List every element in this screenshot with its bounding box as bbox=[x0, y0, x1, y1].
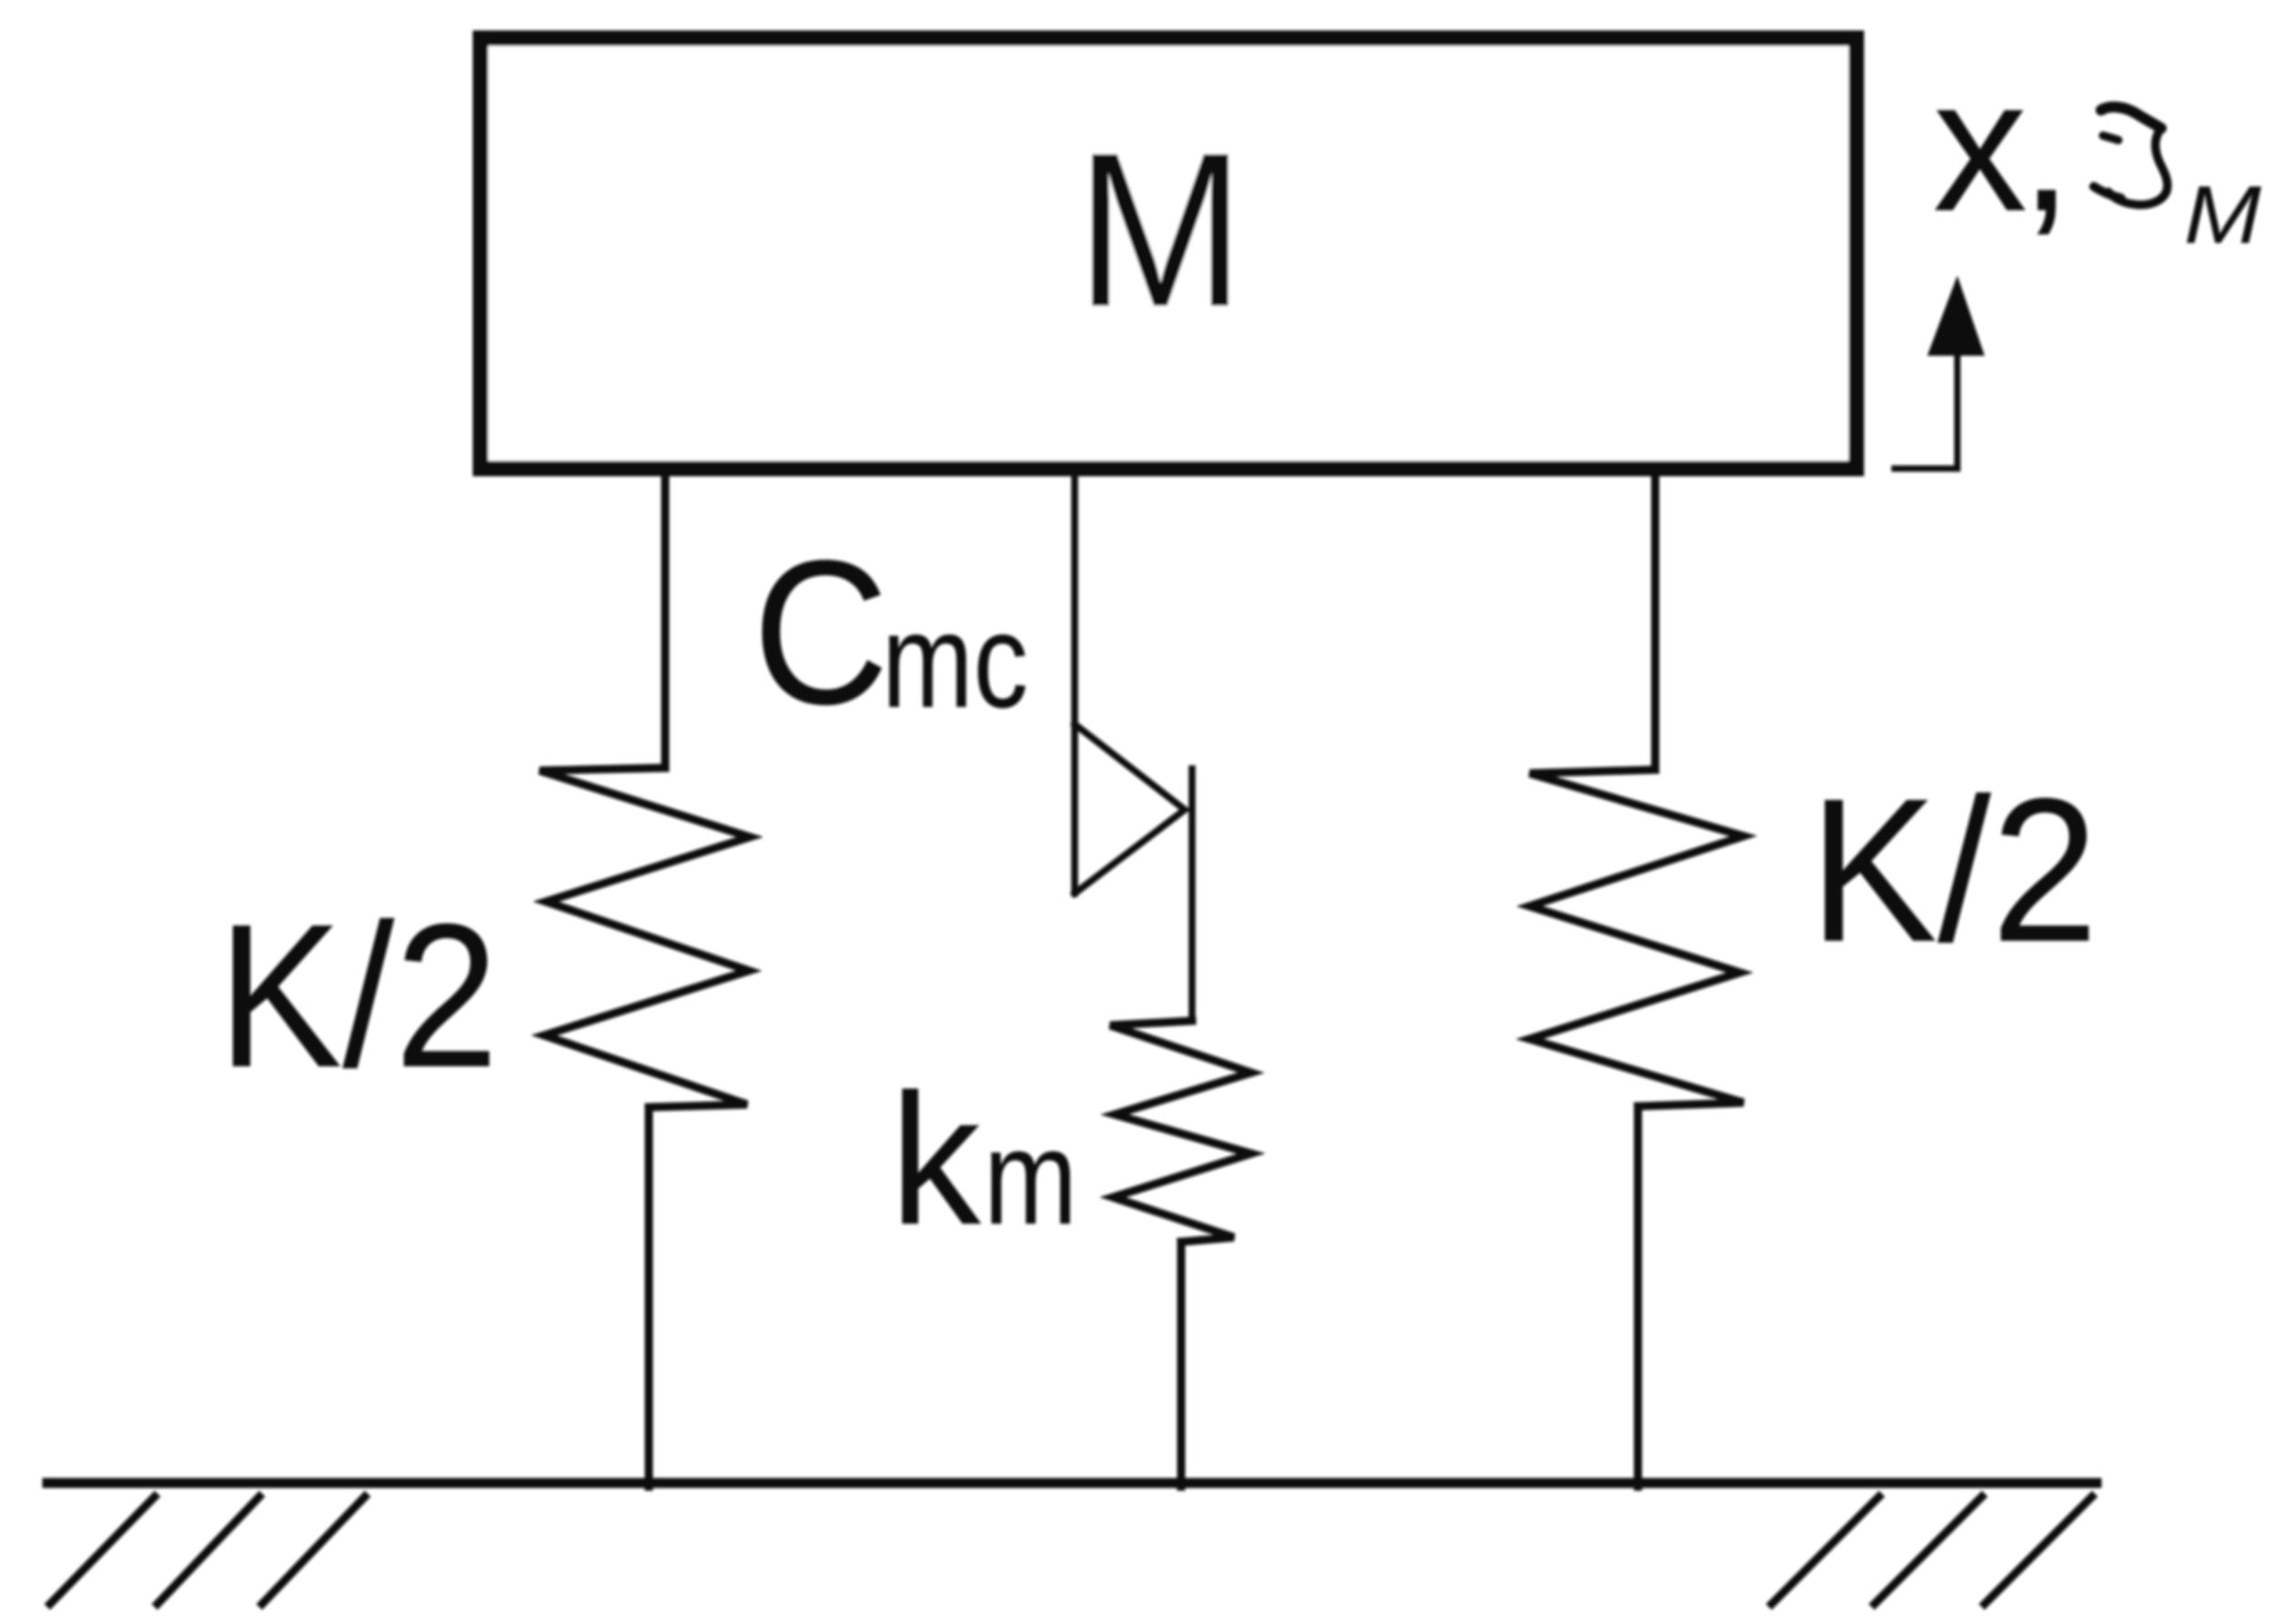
spring K/2 right bbox=[1530, 770, 1743, 1106]
svg-text:m: m bbox=[984, 1103, 1077, 1253]
svg-text:M: M bbox=[2184, 170, 2261, 261]
spring km bbox=[1110, 1021, 1251, 1242]
wire: damper output rod bbox=[1188, 769, 1196, 1021]
arrow shaft bbox=[1955, 356, 1961, 469]
ground hatch right 2 bbox=[1875, 1497, 1982, 1604]
svg-text:mc: mc bbox=[882, 586, 1028, 736]
ground hatch left 3 bbox=[262, 1497, 365, 1604]
wire: km spring bottom leg bbox=[1177, 1242, 1186, 1487]
mass M rectangle bbox=[480, 38, 1856, 469]
ground hatch right 1 bbox=[1772, 1497, 1879, 1604]
svg-text:k: k bbox=[890, 1055, 981, 1264]
ground hatch right 3 bbox=[1985, 1497, 2092, 1604]
wire: left spring top leg bbox=[662, 469, 670, 768]
svg-text:x: x bbox=[1933, 40, 2027, 251]
ground hatch left 2 bbox=[157, 1497, 259, 1604]
svg-text:C: C bbox=[753, 517, 889, 747]
svg-text:K/2: K/2 bbox=[1809, 755, 2098, 984]
svg-text:,: , bbox=[2020, 40, 2073, 251]
wire: right spring top leg bbox=[1652, 469, 1660, 770]
ground hatch left 1 bbox=[50, 1497, 155, 1604]
damper Cmc triangle bbox=[1075, 724, 1185, 893]
arrow foot wire bbox=[1895, 466, 1957, 472]
wire: damper top leg bbox=[1071, 469, 1078, 893]
symbol Im (fraktur I) bbox=[2094, 107, 2168, 206]
label km bbox=[890, 1055, 1077, 1264]
ground line bbox=[47, 1478, 2097, 1488]
spring K/2 left bbox=[540, 768, 750, 1107]
label Cmc bbox=[753, 517, 1028, 747]
wire: left spring bottom leg bbox=[645, 1107, 653, 1487]
svg-text:M: M bbox=[1076, 107, 1245, 353]
arrow head bbox=[1927, 276, 1985, 356]
svg-text:K/2: K/2 bbox=[217, 881, 499, 1110]
wire: right spring bottom leg bbox=[1634, 1106, 1642, 1487]
